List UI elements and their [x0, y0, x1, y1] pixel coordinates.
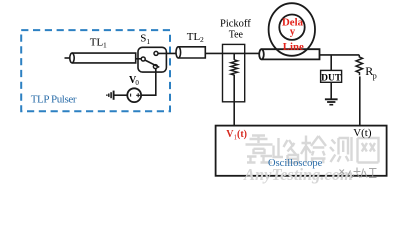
svg-text:1: 1: [146, 37, 150, 46]
svg-text:y: y: [290, 26, 296, 38]
svg-text:Tee: Tee: [229, 29, 244, 40]
svg-text:p: p: [373, 71, 377, 80]
svg-text:Pickoff: Pickoff: [220, 19, 251, 30]
svg-text:0: 0: [135, 79, 139, 87]
svg-text:AnyTesting.com: AnyTesting.com: [243, 165, 353, 184]
svg-text:(t): (t): [237, 129, 247, 140]
svg-text:V(t): V(t): [353, 127, 372, 139]
svg-text:Line: Line: [283, 41, 304, 53]
svg-text:TLP Pulser: TLP Pulser: [31, 93, 77, 105]
svg-text:TL: TL: [90, 36, 104, 48]
svg-text:TL: TL: [187, 31, 201, 43]
svg-text:DUT: DUT: [321, 73, 342, 83]
svg-text:2: 2: [200, 35, 204, 44]
svg-text:1: 1: [103, 41, 107, 50]
